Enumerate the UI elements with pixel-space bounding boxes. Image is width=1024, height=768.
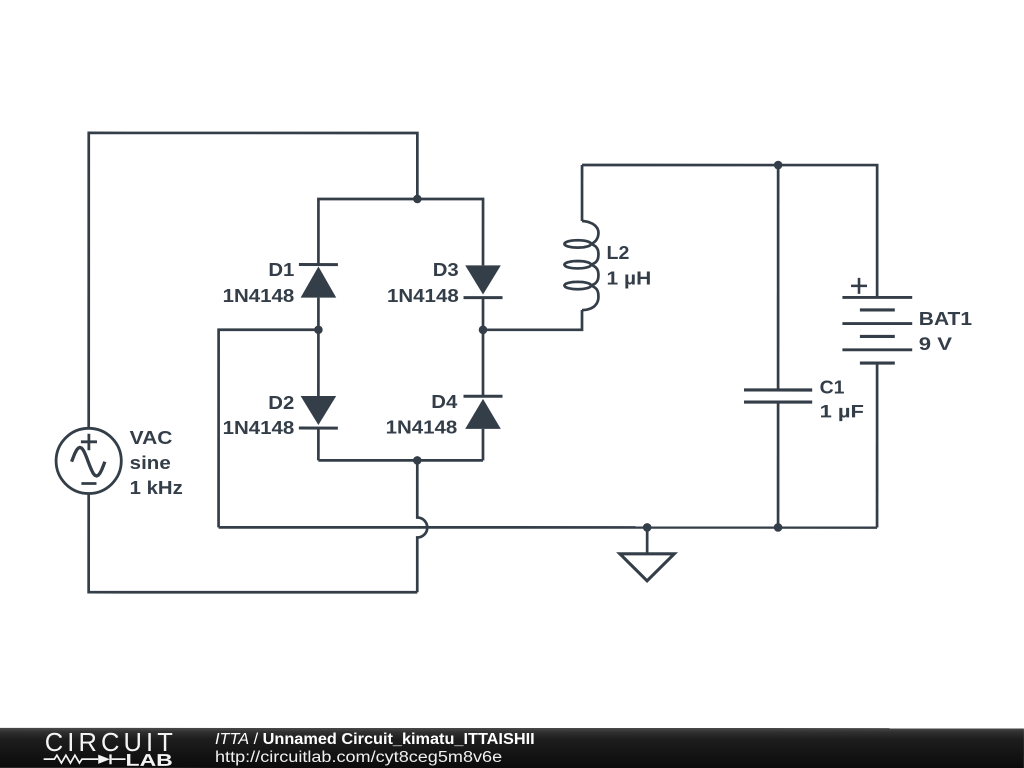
node junction ground [643,523,652,532]
svg-text:1N4148: 1N4148 [386,418,458,438]
node junction bridge bottom [413,456,422,465]
svg-text:9 V: 9 V [919,334,952,354]
svg-text:L2: L2 [607,243,630,263]
logo diode triangle [98,755,110,764]
wire bottom return to VAC [89,493,418,592]
node junction top [413,195,422,204]
svg-text:D2: D2 [268,393,294,413]
node junction D1/D2 [314,325,323,334]
wire D3 bottom to L2 [483,298,582,330]
svg-text:D1: D1 [268,260,294,280]
svg-text:LAB: LAB [126,751,173,768]
svg-text:1 µH: 1 µH [607,269,652,289]
ground symbol [620,527,674,580]
wire bridge mid-bottom with hop over ground rail [417,460,427,592]
svg-text:1 kHz: 1 kHz [130,478,183,498]
wire D1 bottom to mid-left rail [219,298,319,528]
diode D1 [299,265,338,298]
node junction D3/D4 [479,325,488,334]
capacitor C1 [744,390,812,402]
battery BAT1 [842,278,912,363]
svg-text:BAT1: BAT1 [919,309,972,329]
diode D4 [463,330,502,461]
logo squiggle: wire-resistor-diode [44,754,126,764]
svg-text:C1: C1 [820,377,845,397]
wire C1 bottom lead [777,402,780,527]
wire top-right rail [582,165,877,297]
diode D2 [299,330,338,461]
svg-text:1N4148: 1N4148 [387,286,459,306]
wire battery bottom lead [876,363,879,527]
node junction C1 top [774,161,783,170]
svg-text:ITTA / Unnamed Circuit_kimatu_: ITTA / Unnamed Circuit_kimatu_ITTAISHII [215,731,535,748]
wire bridge bottom rail [318,459,483,462]
diode D3 [464,265,503,297]
inductor L2 [564,165,598,310]
node junction C1 bottom [774,523,783,532]
svg-text:1N4148: 1N4148 [223,286,295,306]
wire bridge top rail [318,199,483,265]
source VAC [56,428,121,493]
svg-text:http://circuitlab.com/cyt8ceg5: http://circuitlab.com/cyt8ceg5m8v6e [215,749,502,766]
svg-text:VAC: VAC [130,428,173,448]
svg-text:D3: D3 [433,260,459,280]
svg-text:D4: D4 [431,392,457,412]
wire top-left loop: VAC top to bridge top [89,133,418,428]
svg-text:1N4148: 1N4148 [223,418,295,438]
svg-text:1 µF: 1 µF [820,401,864,421]
svg-text:sine: sine [130,453,171,473]
wire ground rail [219,526,878,529]
wire C1 top lead [777,165,780,390]
